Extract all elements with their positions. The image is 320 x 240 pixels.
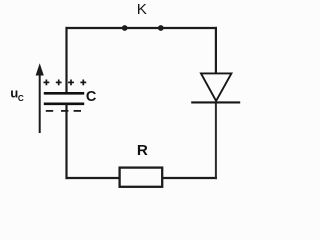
wire right lower (diode cathode down to bottom-right corner)	[215, 102, 217, 179]
capacitor C bottom plate	[44, 102, 84, 105]
wire bottom-left segment	[66, 177, 120, 179]
svg-text:C: C	[86, 89, 97, 105]
capacitor plus charges row	[44, 80, 87, 86]
wire left upper (top corner down to capacitor top plate)	[65, 27, 67, 94]
capacitor C top plate	[44, 92, 84, 95]
svg-text:R: R	[137, 142, 148, 159]
wire bottom-right segment	[162, 177, 217, 179]
svg-text:K: K	[137, 1, 147, 18]
switch K (closed): contact dots and blade	[122, 25, 164, 31]
wire top-left segment	[66, 27, 126, 29]
wire right upper (top corner down to diode anode)	[215, 27, 217, 74]
svg-text:C: C	[18, 94, 24, 103]
wire top-right segment	[161, 27, 217, 29]
voltage arrow uC	[36, 63, 44, 133]
wire left lower (capacitor bottom plate down to bottom-left corner)	[65, 104, 67, 179]
diode cathode bar	[191, 101, 240, 103]
capacitor minus charges row	[46, 110, 81, 112]
diode triangle (anode)	[201, 73, 231, 101]
resistor R body	[120, 168, 163, 187]
